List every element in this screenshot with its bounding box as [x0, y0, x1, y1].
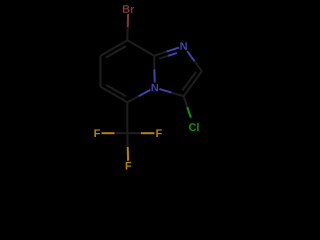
bond C8=C7 double inner	[106, 46, 126, 58]
bond C8-Br (to bromine)	[127, 14, 129, 27]
bond C7-C6	[100, 56, 102, 87]
atom label F bottom	[126, 162, 132, 170]
bond N4-C8a	[153, 69, 155, 82]
bond C6=C5 double inner	[106, 85, 126, 97]
atom label N1 (imidazole nitrogen)	[180, 42, 186, 50]
bond C6=C5 double main	[101, 87, 128, 103]
bond CF3-F bottom	[126, 133, 128, 147]
atom label F left	[94, 129, 100, 137]
bond C8a=N1 double inner	[159, 56, 168, 59]
chemical structure: 8-bromo-3-chloro-5-(trifluoromethyl)imidazo[1,2-a]pyridine on black background	[0, 0, 300, 176]
atom label Cl (chlorine)	[189, 123, 199, 131]
bond C5-CF3 carbon	[126, 102, 128, 133]
bond C2=C3 double inner	[182, 72, 196, 91]
bond C2=C3 double main	[184, 71, 202, 96]
atom label Br (bromine)	[123, 5, 134, 13]
bond C3-N4	[171, 93, 183, 97]
bond C8a=N1 double main	[154, 52, 166, 56]
bond C8=C7 double main	[101, 40, 128, 56]
bond CF3-F right	[127, 132, 141, 134]
bond N1-C2	[187, 51, 194, 61]
bond C3-Cl (to chlorine)	[184, 96, 188, 107]
bond CF3-F left	[114, 132, 127, 134]
atom label N4 (bridgehead nitrogen)	[152, 84, 158, 92]
bond C8-C8a	[127, 40, 154, 56]
bond C5-N4	[127, 96, 139, 102]
atom label F right	[156, 129, 162, 137]
